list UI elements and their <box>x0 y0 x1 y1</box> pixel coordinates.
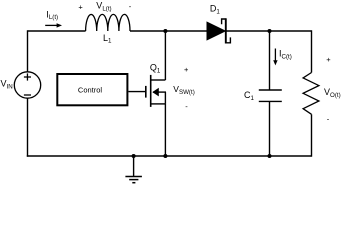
node source/bottom junction <box>163 154 167 158</box>
node ground junction <box>132 154 136 158</box>
node inductor/drain junction <box>163 29 167 33</box>
svg-text:+: + <box>78 3 83 12</box>
wire bottom rail <box>27 155 312 157</box>
current arrow IC <box>273 49 277 66</box>
gate bar <box>145 86 147 98</box>
capacitor branch upper wire <box>269 31 271 90</box>
Q1 body arrow head <box>152 88 159 97</box>
resistor load zigzag <box>303 73 319 115</box>
control block box <box>57 74 127 105</box>
current arrow IL <box>45 23 62 27</box>
ground bars <box>125 177 141 183</box>
capacitor C1 top plate <box>259 89 282 91</box>
transistor Q1 (NMOS) <box>146 31 166 156</box>
diode D1 triangle <box>207 22 225 40</box>
Vin plus sign <box>24 73 31 80</box>
wire top-right (diode cathode to load) <box>226 30 312 32</box>
drain lead <box>164 31 166 80</box>
wire control to gate <box>128 91 145 93</box>
wire left rail lower <box>27 98 29 157</box>
wire right rail lower <box>311 114 313 156</box>
wire top-middle (inductor to diode anode) <box>130 30 208 32</box>
drain stub <box>151 79 165 81</box>
inductor L1 coil arcs <box>86 14 130 31</box>
node cap/bottom junction <box>268 154 272 158</box>
right mid vertical <box>164 92 166 104</box>
capacitor C1 bottom plate <box>259 100 282 102</box>
voltage source Vin circle <box>14 72 40 98</box>
source arrow shaft <box>153 91 166 93</box>
diode D1 schottky cathode bar <box>222 18 231 43</box>
svg-text:+: + <box>184 65 189 74</box>
svg-text:+: + <box>326 55 331 64</box>
capacitor branch lower wire <box>269 101 271 156</box>
node diode/cap junction <box>268 29 272 33</box>
svg-text:Control: Control <box>78 85 103 94</box>
ground stub <box>133 156 135 176</box>
wire right rail upper <box>311 30 313 72</box>
source lead <box>164 104 166 156</box>
channel bar <box>150 75 152 107</box>
wire left rail upper <box>27 30 29 72</box>
wire top-left (Vin to inductor) <box>28 30 86 32</box>
source stub <box>151 103 165 105</box>
Vin minus sign <box>24 94 31 96</box>
